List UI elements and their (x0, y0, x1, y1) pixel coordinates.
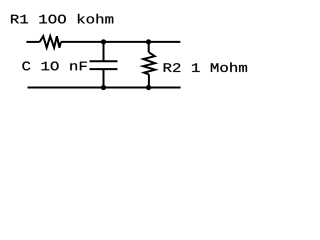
resistor R1 (40, 36, 61, 48)
resistor R2 (143, 42, 155, 88)
node bottom capacitor junction (101, 85, 106, 90)
wire bottom rail (28, 87, 181, 89)
wire top rail left (26, 41, 39, 43)
label C value (22, 62, 86, 71)
label R2 value (164, 62, 247, 72)
wire top rail right (61, 41, 180, 43)
node top capacitor junction (101, 39, 106, 44)
node bottom R2 junction (146, 85, 151, 90)
label R1 value (11, 14, 113, 24)
node top R2 junction (146, 39, 151, 44)
capacitor C (90, 42, 118, 88)
